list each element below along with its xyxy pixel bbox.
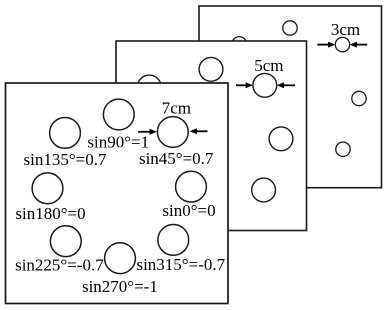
hole M1 (partially hidden) [137,75,161,99]
svg-text:sin45°=0.7: sin45°=0.7 [139,149,214,168]
svg-text:sin225°=-0.7: sin225°=-0.7 [15,256,104,275]
svg-text:sin315°=-0.7: sin315°=-0.7 [136,255,225,274]
hole B1 (partially hidden) [232,37,246,51]
hole B5 [336,142,350,156]
hole sin270 [105,243,136,274]
hole sin45 (7cm) [157,117,188,148]
back sheet (3cm holes) [199,6,382,188]
svg-text:sin180°=0: sin180°=0 [15,204,85,223]
arrow 7cm right [190,128,208,134]
hole M4 [269,127,293,151]
arrow 7cm left [138,129,157,135]
middle sheet (5cm holes) [116,41,307,231]
svg-text:7cm: 7cm [162,99,191,118]
svg-text:sin270°=-1: sin270°=-1 [82,277,158,296]
hole sin180 [32,173,63,204]
hole M2 [199,57,223,81]
svg-text:3cm: 3cm [331,20,360,39]
arrow 5cm left [236,82,253,88]
arrow 3cm right [350,42,368,48]
hole sin0 [176,171,207,202]
svg-text:sin0°=0: sin0°=0 [162,201,215,220]
hole sin135 [50,117,81,148]
hole M5 [252,178,276,202]
hole M3 (5cm) [253,73,277,97]
svg-text:sin135°=0.7: sin135°=0.7 [24,150,107,169]
arrow 3cm left [317,42,335,48]
hole sin90 [103,99,134,130]
front sheet (7cm holes) [6,83,229,304]
hole B2 [283,21,297,35]
svg-text:5cm: 5cm [254,56,283,75]
hole B4 [352,91,366,105]
hole sin315 [158,225,189,256]
hole B3 (3cm) [335,37,349,51]
arrow 5cm right [277,82,295,88]
hole sin225 [50,226,81,257]
